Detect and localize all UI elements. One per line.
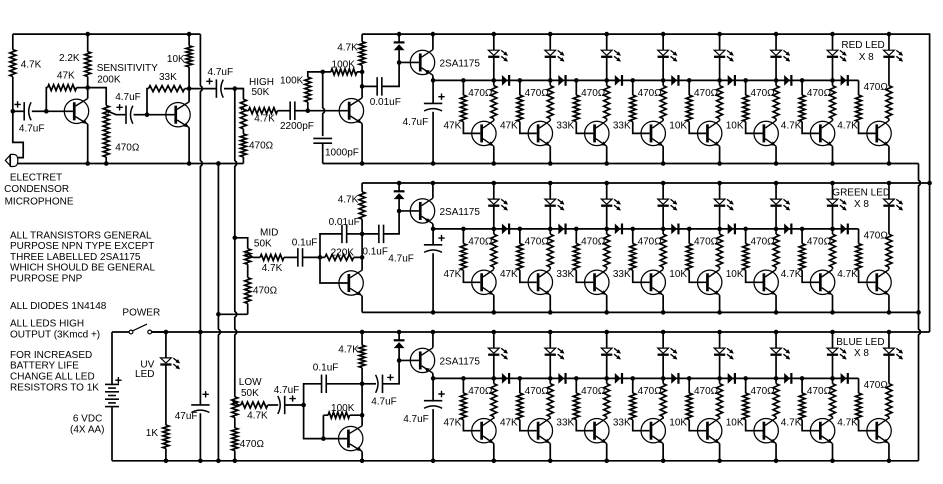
LED green 7 — [827, 199, 838, 204]
svg-text:RESISTORS TO 1K: RESISTORS TO 1K — [10, 383, 99, 394]
svg-text:ALL LEDS HIGH: ALL LEDS HIGH — [10, 318, 84, 329]
LED green 2 — [545, 199, 556, 204]
wire red base 3 — [576, 80, 593, 133]
resistor base blue 7 (4.7K) — [799, 393, 805, 419]
wire red 4.7uF top — [432, 80, 434, 103]
wire 2.2K leads — [87, 34, 89, 88]
svg-text:4.7uF: 4.7uF — [208, 67, 234, 78]
wire green diode column — [398, 183, 400, 211]
node green first base resistor tap — [461, 227, 466, 232]
wire MID 0.01uF branch — [320, 234, 342, 258]
svg-text:4.7K: 4.7K — [254, 114, 275, 125]
node blue LED column 4 top — [661, 330, 666, 335]
svg-text:10K: 10K — [726, 269, 744, 280]
wire green base 3 — [576, 229, 593, 282]
diode green 4-5 — [671, 224, 677, 235]
svg-text:POWER: POWER — [122, 308, 160, 319]
diode blue 7-8 — [841, 373, 847, 384]
capacitor 0.1uF low — [321, 375, 323, 394]
wire red emitter 6 — [775, 146, 777, 163]
node green emitter 3 — [604, 310, 609, 315]
wire mid pot ground segment — [218, 313, 247, 315]
node red diode 4 cathode — [687, 78, 692, 83]
wire Q2 base — [147, 114, 174, 116]
node green diode 5 cathode — [743, 227, 748, 232]
node ground bus mid-tap — [216, 312, 221, 317]
node red LED 4 cathode — [661, 78, 666, 83]
svg-text:470Ω: 470Ω — [694, 237, 719, 248]
capacitor 0.01uF red — [376, 77, 378, 96]
wire green LED column 2 — [549, 183, 551, 199]
svg-text:470Ω: 470Ω — [750, 237, 775, 248]
svg-text:4.7uF: 4.7uF — [371, 397, 397, 408]
transistor 2SA1175 green — [410, 199, 434, 223]
resistor 470R red 6 — [773, 86, 779, 119]
node signal bus top — [233, 86, 238, 91]
wire mic ground — [17, 163, 88, 165]
svg-text:4.7uF: 4.7uF — [403, 414, 429, 425]
node blue LED 1 cathode — [492, 376, 497, 381]
wire MID pot mid — [247, 264, 249, 277]
svg-text:470Ω: 470Ω — [581, 386, 606, 397]
node blue 2SA collector top — [431, 330, 436, 335]
resistor 470R blue 2 — [547, 384, 553, 417]
wire LOW cap-out right — [383, 360, 400, 383]
node green diode column top — [397, 181, 402, 186]
wire 33K riser — [147, 89, 189, 115]
node green LED column 5 top — [717, 181, 722, 186]
resistor 470R blue 5 — [717, 384, 723, 417]
diode blue 1-2 — [502, 373, 508, 384]
wire blue LED column 4 — [662, 332, 664, 348]
wire green emitter 6 — [775, 295, 777, 312]
resistor base green 8 (4.7K) — [856, 244, 862, 270]
node red diode 1 cathode — [518, 78, 523, 83]
svg-text:MICROPHONE: MICROPHONE — [5, 196, 74, 207]
wire red 2SA collector — [432, 34, 434, 50]
node blue LED column 3 top — [604, 330, 609, 335]
wire 47K riser — [46, 88, 87, 112]
svg-text:CHANGE ALL LED: CHANGE ALL LED — [10, 372, 95, 383]
wire blue base 5 — [689, 378, 706, 430]
wire blue base 3 — [576, 378, 593, 430]
svg-text:100K: 100K — [280, 75, 304, 86]
svg-text:10K: 10K — [726, 120, 744, 131]
diode blue 3-4 — [615, 373, 621, 384]
wire MID 4.7K lead — [253, 256, 260, 258]
node Q1 base junction — [44, 109, 49, 114]
wire red emitter 4 — [662, 146, 664, 163]
node red 2SA base — [397, 60, 402, 65]
transistor Q1 — [64, 99, 88, 123]
wire blue base 1 — [463, 378, 480, 430]
node red diode 5 cathode — [743, 78, 748, 83]
capacitor 4.7uF preamp out — [215, 79, 217, 97]
svg-text:1K: 1K — [146, 428, 159, 439]
svg-text:RED LED: RED LED — [841, 40, 884, 51]
svg-text:PURPOSE PNP: PURPOSE PNP — [10, 273, 83, 284]
resistor 470R green 3 — [604, 234, 610, 267]
wire green 2SA emitter — [432, 224, 434, 229]
svg-text:2SA1175: 2SA1175 — [440, 356, 481, 367]
svg-text:LED: LED — [135, 369, 154, 380]
node green diode 4 cathode — [687, 227, 692, 232]
wire 10K leads — [188, 34, 190, 89]
node HIGH collector node — [360, 70, 365, 75]
svg-text:ELECTRET: ELECTRET — [10, 172, 62, 183]
plus LOW input cap — [289, 395, 295, 401]
LED red 3 — [601, 50, 612, 55]
wire mic ground rail — [88, 163, 244, 165]
node blue diode 2 cathode — [574, 376, 579, 381]
svg-text:33K: 33K — [159, 72, 177, 83]
transistor red 8 — [867, 121, 891, 145]
svg-text:0.1uF: 0.1uF — [362, 247, 388, 258]
svg-text:470Ω: 470Ω — [750, 88, 775, 99]
plus LOW output cap — [387, 374, 393, 380]
wire blue emitter 2 — [549, 444, 551, 461]
wire MID pot bottom — [247, 304, 249, 315]
resistor 470R red 7 — [830, 86, 836, 119]
node LOW 100K node — [360, 413, 365, 418]
wire blue 2SA base — [399, 359, 419, 361]
resistor 2.2K — [85, 52, 91, 77]
resistor base blue 1 (47K) — [460, 393, 466, 419]
wire red base 8 — [859, 80, 876, 133]
node LOW base node — [301, 403, 306, 408]
resistor 470R red 2 — [547, 86, 553, 119]
wire HIGH pot mid — [242, 129, 244, 134]
wire green LED column 3 — [606, 183, 608, 199]
wire 4.7K blue leads — [361, 332, 363, 384]
potentiometer HIGH 50K — [240, 99, 246, 129]
wire blue base 2 — [520, 378, 537, 430]
svg-text:33K: 33K — [556, 269, 574, 280]
plus battery — [115, 377, 121, 383]
node red LED 3 cathode — [604, 78, 609, 83]
node green diode 2 cathode — [574, 227, 579, 232]
wiper MID — [248, 254, 253, 258]
node ground bus top — [216, 161, 221, 166]
wire LOW cap-in left — [268, 404, 279, 406]
resistor 4.7K mic — [10, 50, 16, 77]
wire LOW pot bottom — [234, 451, 236, 461]
resistor 4.7K mid — [260, 254, 284, 260]
transistor green 3 — [585, 270, 609, 294]
svg-text:470Ω: 470Ω — [581, 88, 606, 99]
node UV LED ground — [164, 459, 169, 464]
capacitor 4.7uF green — [424, 244, 442, 246]
wire blue 2SA emitter — [432, 373, 434, 378]
transistor blue 8 — [867, 419, 891, 443]
node UV LED top — [164, 330, 169, 335]
svg-text:47K: 47K — [500, 269, 518, 280]
svg-text:100K: 100K — [331, 403, 355, 414]
node +V bus power line — [198, 330, 203, 335]
svg-text:470Ω: 470Ω — [468, 88, 493, 99]
wire blue emitter 1 — [493, 444, 495, 461]
svg-text:4.7uF: 4.7uF — [19, 124, 45, 135]
resistor base red 6 (10K) — [743, 95, 749, 121]
capacitor 4.7uF mic — [23, 102, 25, 120]
resistor base blue 5 (10K) — [686, 393, 692, 419]
node red emitter 2 — [548, 161, 553, 166]
svg-text:470Ω: 470Ω — [638, 386, 663, 397]
wire blue drive rail — [433, 377, 858, 379]
wire green base 6 — [746, 229, 763, 282]
svg-text:0.1uF: 0.1uF — [313, 363, 339, 374]
svg-text:10K: 10K — [167, 54, 185, 65]
plus preamp out cap — [206, 78, 212, 84]
node blue emitter 6 — [774, 459, 779, 464]
svg-text:4.7uF: 4.7uF — [274, 385, 300, 396]
LED red 6 — [771, 50, 782, 55]
resistor 470R red 1 — [491, 86, 497, 119]
node ground bus bottom — [216, 459, 221, 464]
wire red LED column 2 — [549, 34, 551, 50]
resistor base blue 8 (4.7K) — [856, 393, 862, 419]
wire preamp out 2 — [224, 88, 243, 90]
wire +V bus to 47uF — [199, 332, 201, 405]
potentiometer MID 50K — [245, 249, 251, 265]
svg-text:50K: 50K — [252, 87, 270, 98]
LED blue 2 — [545, 348, 556, 353]
node blue emitter 2 — [548, 459, 553, 464]
wire HIGH collector 2 — [361, 72, 363, 87]
transistor green 8 — [867, 270, 891, 294]
resistor base blue 2 (47K) — [517, 393, 523, 419]
node red LED column 6 top — [774, 32, 779, 37]
resistor 4.7K blue — [359, 345, 365, 368]
wire +V right edge — [929, 183, 931, 332]
wire return line — [919, 164, 921, 461]
node blue diode 5 cathode — [743, 376, 748, 381]
wire 2200pF left — [278, 110, 291, 112]
node red LED 6 cathode — [774, 78, 779, 83]
wire blue emitter 4 — [662, 444, 664, 461]
svg-text:470Ω: 470Ω — [807, 88, 832, 99]
node red diode 3 cathode — [630, 78, 635, 83]
wire 100Kv leads — [308, 72, 323, 111]
node green LED column 2 top — [548, 181, 553, 186]
svg-text:470Ω: 470Ω — [525, 88, 550, 99]
wire 100Kh leads — [323, 71, 362, 73]
capacitor 4.7uF low output — [382, 375, 384, 393]
svg-text:470Ω: 470Ω — [807, 386, 832, 397]
node green LED column 6 top — [774, 181, 779, 186]
wire battery bottom — [111, 407, 113, 461]
svg-text:47K: 47K — [444, 269, 462, 280]
wire green LED column 5 — [719, 183, 721, 199]
LED red 7 — [827, 50, 838, 55]
svg-text:2SA1175: 2SA1175 — [440, 207, 481, 218]
diode red 3-4 — [615, 75, 621, 86]
node red LED column 4 top — [661, 32, 666, 37]
svg-text:6 VDC: 6 VDC — [73, 414, 102, 425]
node green emitter 8 — [887, 310, 892, 315]
LED blue 1 — [488, 348, 499, 353]
node MID lower node — [360, 255, 365, 260]
transistor Q low — [339, 426, 363, 450]
node red LED column 5 top — [717, 32, 722, 37]
node Q1 collector — [85, 85, 90, 90]
node green LED 3 cathode — [604, 227, 609, 232]
wire 0.1uF mid-in right — [303, 256, 320, 258]
svg-text:0.01uF: 0.01uF — [329, 217, 360, 228]
wire mic drop — [13, 111, 23, 157]
plus green 4.7uF — [438, 235, 444, 241]
node 2.2K top — [85, 32, 90, 37]
svg-text:X 8: X 8 — [859, 52, 874, 63]
node blue emitter 1 — [492, 459, 497, 464]
svg-text:1000pF: 1000pF — [325, 148, 359, 159]
node blue LED 5 cathode — [717, 376, 722, 381]
svg-text:470Ω: 470Ω — [864, 380, 889, 391]
node green emitter 6 — [774, 310, 779, 315]
wire LOW base — [304, 405, 348, 439]
transistor red 6 — [754, 121, 778, 145]
LED red 5 — [714, 50, 725, 55]
wire 0.01uF right — [382, 62, 399, 86]
svg-text:47K: 47K — [444, 418, 462, 429]
svg-text:4.7K: 4.7K — [338, 194, 359, 205]
wire red LED column 5 — [719, 34, 721, 50]
resistor 33K — [149, 86, 185, 92]
svg-text:2200pF: 2200pF — [280, 121, 314, 132]
wire green base 2 — [520, 229, 537, 282]
svg-text:4.7K: 4.7K — [21, 60, 42, 71]
svg-text:0.1uF: 0.1uF — [292, 238, 318, 249]
wire green emitter 3 — [606, 295, 608, 312]
node green LED 7 cathode — [830, 227, 835, 232]
potentiometer LOW 50K — [232, 397, 238, 418]
svg-text:47K: 47K — [500, 120, 518, 131]
resistor 470R green 7 — [830, 234, 836, 267]
node blue emitter 4 — [661, 459, 666, 464]
svg-text:470Ω: 470Ω — [864, 231, 889, 242]
resistor 470R green 2 — [547, 234, 553, 267]
node mic cap junction — [11, 109, 16, 114]
diode red 6-7 — [784, 75, 790, 86]
wire blue LED column 3 — [606, 332, 608, 348]
wire red emitter 5 — [719, 146, 721, 163]
wire green emitter 2 — [549, 295, 551, 312]
wire Q1 emitter — [87, 124, 89, 163]
node blue diode 6 cathode — [800, 376, 805, 381]
svg-text:200K: 200K — [97, 74, 121, 85]
capacitor 4.7uF red — [424, 102, 442, 104]
svg-text:4.7K: 4.7K — [837, 269, 858, 280]
wire green base 7 — [802, 229, 819, 282]
resistor 10K — [186, 46, 192, 67]
node HIGH feedback node — [320, 70, 325, 75]
node red drive node — [431, 78, 436, 83]
svg-text:33K: 33K — [556, 418, 574, 429]
node red 2SA collector top — [431, 32, 436, 37]
wire LOW pot mid — [234, 418, 236, 428]
LED red 1 — [488, 50, 499, 55]
LED green 4 — [658, 199, 669, 204]
svg-text:PURPOSE NPN TYPE EXCEPT: PURPOSE NPN TYPE EXCEPT — [10, 241, 154, 252]
svg-text:47K: 47K — [57, 71, 75, 82]
wire bottom ground rail — [112, 460, 919, 462]
node green LED column 3 top — [604, 181, 609, 186]
LED red 4 — [658, 50, 669, 55]
transistor 2SA1175 red — [410, 50, 434, 74]
transistor red 5 — [698, 121, 722, 145]
resistor 470R blue 3 — [604, 384, 610, 417]
svg-text:470Ω: 470Ω — [581, 237, 606, 248]
capacitor 0.1uF mid output — [378, 225, 380, 244]
svg-text:4.7K: 4.7K — [337, 42, 358, 53]
resistor base green 4 (33K) — [630, 244, 636, 270]
node red LED 2 cathode — [548, 78, 553, 83]
node mic rail ground-bus tap — [216, 161, 221, 166]
svg-text:0.01uF: 0.01uF — [370, 97, 401, 108]
node blue LED column 7 top — [830, 330, 835, 335]
node blue emitter 8 — [887, 459, 892, 464]
svg-text:4.7K: 4.7K — [338, 344, 359, 355]
transistor green 1 — [472, 270, 496, 294]
node 47uF ground — [198, 459, 203, 464]
wire 0.1uF mid-out left — [362, 233, 379, 235]
resistor base green 1 (47K) — [460, 244, 466, 270]
resistor base blue 3 (33K) — [573, 393, 579, 419]
resistor 4.7K high — [249, 108, 278, 114]
node blue LED column 8 top — [887, 330, 892, 335]
diode green 6-7 — [784, 224, 790, 235]
wire blue LED column 5 — [719, 332, 721, 348]
wire green emitter 1 — [493, 295, 495, 312]
wire blue diode column — [398, 332, 400, 360]
node 10K top — [187, 32, 192, 37]
diode red 7-8 — [841, 75, 847, 86]
wire pot bottom — [105, 157, 107, 164]
LED green 3 — [601, 199, 612, 204]
svg-text:33K: 33K — [613, 418, 631, 429]
transistor blue 1 — [472, 419, 496, 443]
plus mic cap — [14, 101, 20, 107]
wire +V bus — [200, 34, 202, 332]
svg-text:2.2K: 2.2K — [59, 53, 80, 64]
resistor 100K low — [328, 412, 350, 418]
resistor 470R mic — [103, 132, 109, 158]
wire switch right — [152, 331, 166, 333]
svg-text:(4X AA): (4X AA) — [70, 425, 104, 436]
wire Q1 collector — [87, 88, 89, 99]
wire green emitter 7 — [832, 295, 834, 312]
diode green detector — [394, 190, 405, 192]
diode green 2-3 — [558, 224, 564, 235]
wire left supply column — [12, 34, 14, 111]
node blue LED 6 cathode — [774, 376, 779, 381]
node green emitter 7 — [830, 310, 835, 315]
node MID upper node — [360, 232, 365, 237]
capacitor 4.7uF sens — [125, 106, 127, 124]
wire mic cap right — [32, 110, 47, 112]
wire green emitter 8 — [888, 295, 890, 312]
wire red emitter 2 — [549, 146, 551, 163]
svg-text:4.7K: 4.7K — [781, 418, 802, 429]
svg-text:470Ω: 470Ω — [525, 386, 550, 397]
node LOW emitter ground — [360, 459, 365, 464]
wire blue emitter 5 — [719, 444, 721, 461]
wire red 2SA base — [399, 61, 419, 63]
wire green LED column 7 — [832, 183, 834, 199]
wire blue emitter 3 — [606, 444, 608, 461]
wire green 4.7uF top — [432, 229, 434, 245]
wire MID pot feed — [235, 238, 248, 249]
